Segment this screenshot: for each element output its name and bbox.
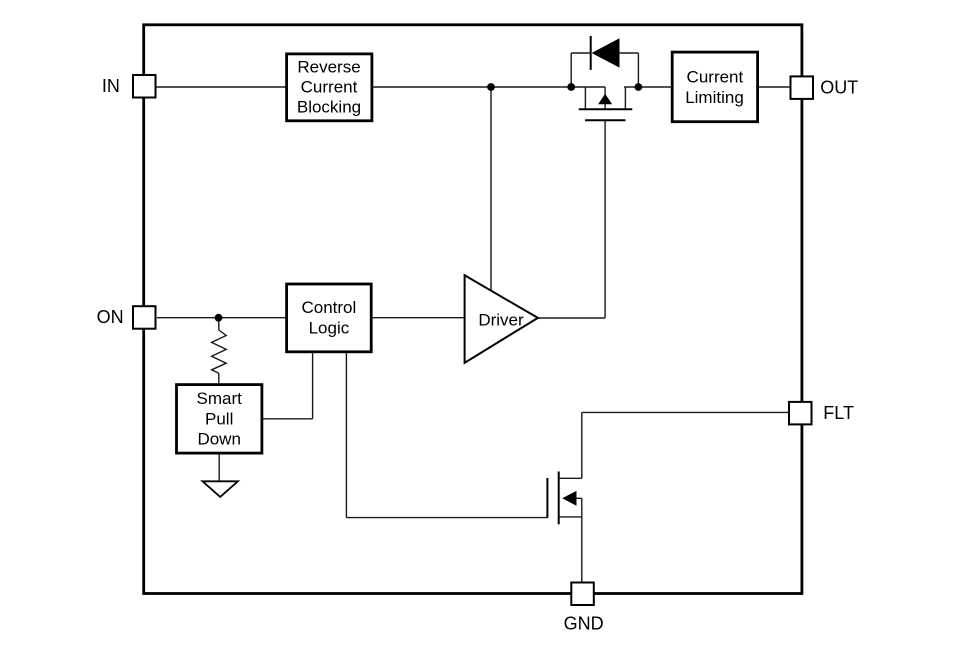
svg-text:Current: Current	[301, 78, 358, 97]
svg-text:Control: Control	[301, 298, 356, 317]
svg-text:ON: ON	[97, 307, 124, 327]
svg-text:Blocking: Blocking	[297, 98, 361, 117]
svg-text:Pull: Pull	[205, 409, 233, 428]
svg-text:OUT: OUT	[820, 77, 858, 97]
svg-text:Smart: Smart	[197, 389, 243, 408]
svg-text:FLT: FLT	[823, 403, 854, 423]
svg-text:Down: Down	[197, 430, 240, 449]
svg-text:Logic: Logic	[309, 319, 350, 338]
svg-text:IN: IN	[102, 76, 120, 96]
svg-text:GND: GND	[564, 614, 604, 634]
svg-text:Current: Current	[687, 67, 744, 86]
svg-text:Driver: Driver	[478, 310, 524, 329]
svg-text:Reverse: Reverse	[297, 57, 360, 76]
svg-text:Limiting: Limiting	[685, 88, 744, 107]
